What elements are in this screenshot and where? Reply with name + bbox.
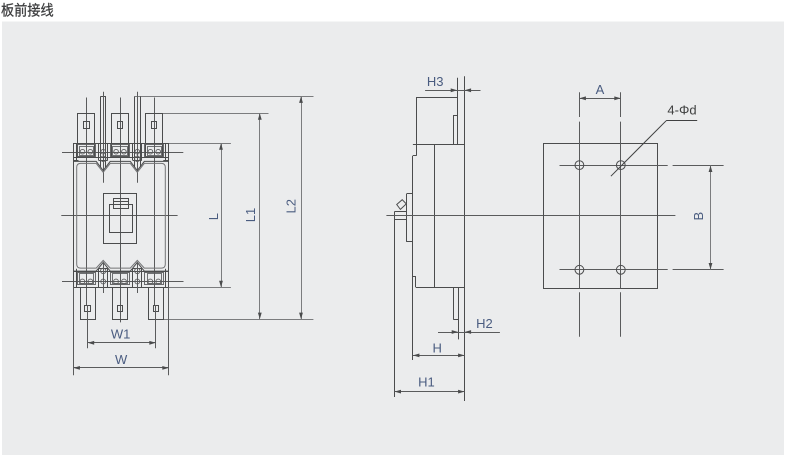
svg-text:H1: H1: [418, 375, 435, 390]
svg-text:L2: L2: [283, 199, 298, 213]
svg-text:A: A: [596, 82, 605, 97]
svg-text:H2: H2: [476, 316, 493, 331]
svg-text:L1: L1: [243, 208, 258, 222]
svg-text:L: L: [206, 213, 221, 220]
svg-text:W: W: [115, 352, 128, 367]
svg-text:4-Φd: 4-Φd: [667, 103, 696, 118]
svg-text:H: H: [433, 341, 442, 356]
svg-text:W1: W1: [111, 327, 131, 342]
svg-text:H3: H3: [427, 74, 444, 89]
svg-text:B: B: [691, 212, 706, 221]
